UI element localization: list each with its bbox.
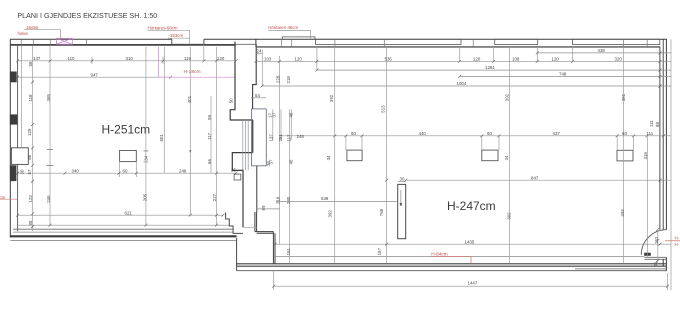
shaft pipes — [243, 120, 248, 170]
window box 3 room2 — [573, 39, 660, 44]
svg-text:110: 110 — [654, 236, 659, 244]
svg-text:119: 119 — [184, 56, 192, 61]
svg-text:157: 157 — [377, 248, 382, 256]
svg-text:122: 122 — [28, 195, 33, 203]
svg-text:240: 240 — [286, 196, 291, 204]
column K2 room2 — [347, 150, 362, 161]
svg-text:151: 151 — [286, 248, 291, 256]
svg-text:847: 847 — [531, 175, 539, 180]
shaft rectangle — [252, 109, 267, 166]
partition small box — [234, 174, 241, 180]
dim line 54 — [251, 97, 266, 99]
svg-text:103: 103 — [264, 56, 272, 61]
dim line 30 pillar — [398, 180, 406, 182]
svg-text:16x56: 16x56 — [26, 25, 39, 30]
svg-text:340: 340 — [72, 168, 80, 173]
svg-text:88: 88 — [655, 122, 660, 127]
partition wall left outline — [230, 42, 252, 228]
rotated dim texts — [20, 61, 661, 267]
svg-text:117: 117 — [207, 132, 212, 140]
svg-text:768: 768 — [379, 208, 384, 216]
svg-text:392: 392 — [505, 93, 510, 101]
dim line G 438 — [537, 52, 671, 54]
dim line 539 — [276, 201, 398, 203]
window box 1 room2 — [316, 39, 462, 44]
svg-text:H-: H- — [675, 236, 680, 241]
dim line J 1004 — [262, 85, 671, 87]
svg-text:57: 57 — [27, 169, 32, 174]
svg-text:147: 147 — [33, 56, 41, 61]
svg-text:120: 120 — [295, 56, 303, 61]
svg-text:60: 60 — [351, 131, 356, 136]
svg-text:621: 621 — [125, 210, 133, 215]
svg-text:H-18cm: H-18cm — [184, 69, 201, 75]
wall: room2 top inner — [256, 46, 660, 48]
dimension line A room1 y61 — [18, 53, 671, 286]
svg-text:60: 60 — [123, 168, 128, 173]
wall: room2 bottom band — [237, 263, 667, 265]
right wall below door — [663, 257, 666, 270]
svg-text:392: 392 — [327, 210, 332, 218]
leader 46cm (gray) — [268, 30, 310, 39]
dim line K 847 — [406, 179, 671, 181]
svg-text:218: 218 — [275, 196, 280, 204]
svg-text:H-: H- — [675, 242, 680, 247]
wall: room2 top outer — [236, 38, 667, 40]
svg-text:30: 30 — [20, 169, 25, 174]
svg-text:401: 401 — [187, 95, 192, 103]
left wall pier 3 — [10, 165, 17, 181]
pillar arrow — [400, 190, 402, 206]
svg-text:50: 50 — [229, 98, 234, 103]
connector top band tick — [236, 43, 256, 45]
svg-text:251: 251 — [278, 134, 283, 142]
svg-text:-153cm: -153cm — [169, 33, 184, 38]
leader arrow room1 — [189, 150, 191, 153]
dim texts room1 line A — [33, 48, 654, 285]
partition wall right outline — [253, 44, 257, 109]
svg-text:536: 536 — [385, 56, 393, 61]
svg-text:34: 34 — [326, 155, 331, 160]
svg-text:H-247cm: H-247cm — [447, 199, 496, 213]
bottom outer line — [237, 270, 667, 272]
red leader right — [665, 240, 680, 242]
svg-text:748: 748 — [559, 72, 567, 77]
svg-text:110: 110 — [68, 56, 76, 61]
room2 bottom right lower step — [575, 268, 666, 270]
svg-text:36: 36 — [266, 161, 271, 166]
svg-text:120: 120 — [552, 56, 560, 61]
svg-text:46: 46 — [288, 159, 293, 164]
svg-text:248: 248 — [179, 168, 187, 173]
svg-text:437: 437 — [553, 131, 561, 136]
svg-text:218: 218 — [286, 76, 291, 84]
svg-text:60: 60 — [622, 131, 627, 136]
wall: left inner — [17, 45, 19, 231]
svg-text:118: 118 — [28, 94, 33, 102]
dim line B 947 — [18, 76, 171, 78]
svg-text:30: 30 — [400, 177, 405, 182]
svg-text:108: 108 — [512, 56, 520, 61]
dim line 24 — [256, 53, 262, 55]
svg-text:129: 129 — [27, 128, 32, 136]
leader 68cm (gray) — [148, 31, 190, 45]
svg-text:58: 58 — [28, 61, 33, 66]
left wall pier 1 — [10, 72, 17, 83]
svg-text:392: 392 — [329, 94, 334, 102]
room2 top-left corner vertical — [255, 39, 257, 47]
svg-text:302: 302 — [506, 212, 511, 220]
svg-text:248: 248 — [297, 134, 305, 139]
dim line H 1281 — [317, 69, 671, 71]
svg-text:947: 947 — [91, 72, 99, 77]
svg-text:34: 34 — [143, 155, 148, 160]
wall: room1 top outer — [10, 39, 236, 44]
svg-text:320: 320 — [615, 56, 623, 61]
wall: room2 right — [660, 39, 667, 229]
svg-text:120: 120 — [473, 56, 481, 61]
room2 top mullion ticks — [282, 39, 648, 46]
svg-text:137: 137 — [268, 134, 273, 142]
svg-text:1435: 1435 — [465, 239, 475, 244]
svg-text:539: 539 — [321, 196, 329, 201]
wall: room1 top inner thick — [10, 44, 235, 46]
door jamb bottom lines — [645, 257, 667, 259]
pillar P1 — [398, 184, 406, 238]
svg-text:393: 393 — [620, 209, 625, 217]
svg-text:381: 381 — [621, 93, 626, 101]
svg-text:111: 111 — [647, 131, 654, 136]
svg-text:25: 25 — [231, 168, 236, 173]
svg-text:H-251cm: H-251cm — [102, 123, 151, 137]
svg-text:1447: 1447 — [468, 280, 478, 285]
dim line M 1447 — [274, 285, 668, 287]
dim line 89 — [257, 208, 280, 210]
wall: room1 bottom — [13, 225, 233, 232]
dim line C room1 y173 — [18, 172, 236, 174]
partition lower right wall — [255, 166, 275, 264]
dim line L 1435 — [275, 243, 671, 245]
svg-text:438: 438 — [598, 48, 606, 53]
door threshold partition — [243, 226, 257, 228]
wall mullion ticks room1 top — [21, 39, 86, 44]
svg-text:111: 111 — [649, 120, 654, 127]
dim line I 748 — [460, 75, 671, 77]
red leader H-84 — [431, 257, 471, 264]
svg-text:88: 88 — [27, 154, 32, 159]
svg-text:24: 24 — [257, 49, 262, 54]
column K3 room2 — [482, 150, 498, 161]
svg-text:228: 228 — [276, 75, 281, 83]
svg-text:205: 205 — [142, 193, 147, 201]
svg-text:89: 89 — [261, 205, 266, 210]
svg-text:hinke: hinke — [18, 31, 29, 36]
svg-text:310: 310 — [126, 56, 134, 61]
window box 2 room2 — [495, 39, 538, 44]
svg-text:99: 99 — [207, 115, 212, 120]
svg-text:46: 46 — [288, 112, 293, 117]
wall: left outer — [9, 39, 11, 237]
svg-text:227: 227 — [212, 193, 217, 201]
svg-text:117: 117 — [287, 134, 292, 142]
svg-text:513: 513 — [380, 105, 385, 113]
leader hinke (gray) — [24, 30, 61, 39]
svg-text:1004: 1004 — [457, 81, 467, 86]
magenta ceiling line H-18 — [158, 47, 234, 77]
left wall pier 2 — [10, 114, 17, 124]
dim line E columns — [280, 135, 671, 137]
door D1 leaf — [644, 253, 651, 256]
svg-text:H-84cm: H-84cm — [431, 251, 448, 256]
svg-text:246: 246 — [46, 195, 51, 203]
dim line D room1 y215 — [18, 214, 223, 216]
svg-text:41: 41 — [653, 261, 658, 266]
svg-text:120: 120 — [217, 56, 225, 61]
door D1 arc — [641, 230, 666, 255]
svg-text:60: 60 — [487, 131, 492, 136]
svg-text:601: 601 — [159, 134, 164, 142]
svg-text:1281: 1281 — [485, 65, 495, 70]
svg-text:34: 34 — [504, 155, 509, 160]
magenta sink box — [56, 38, 72, 44]
room1 bottom-right steps — [226, 212, 243, 233]
wall: room2 bottom inner — [275, 256, 645, 258]
svg-text:88: 88 — [28, 220, 33, 225]
svg-text:PLANI I GJENDJES EKZISTUESE SH: PLANI I GJENDJES EKZISTUESE SH. 1:50 — [17, 12, 157, 20]
interior extension verticals room2 — [253, 39, 671, 290]
svg-text:440: 440 — [419, 131, 427, 136]
svg-text:37: 37 — [272, 112, 277, 117]
svg-text:318: 318 — [643, 152, 648, 160]
column K4 room2 — [617, 150, 633, 161]
svg-text:365: 365 — [46, 94, 51, 102]
svg-text:Höritares-68cm: Höritares-68cm — [148, 25, 178, 30]
svg-text:Höritares-46cm: Höritares-46cm — [268, 25, 298, 30]
column K1 room1 — [120, 151, 137, 162]
svg-text:66: 66 — [207, 159, 212, 164]
red leader left — [0, 198, 18, 200]
dim slash ticks — [16, 51, 669, 287]
connector outer vertical — [236, 238, 238, 271]
room2 top raised lip — [282, 37, 315, 39]
svg-text:54: 54 — [255, 93, 260, 98]
dim line F room2 y61 — [256, 60, 671, 62]
interior extension verticals room1 — [22, 44, 217, 231]
left wall niche — [11, 148, 28, 165]
